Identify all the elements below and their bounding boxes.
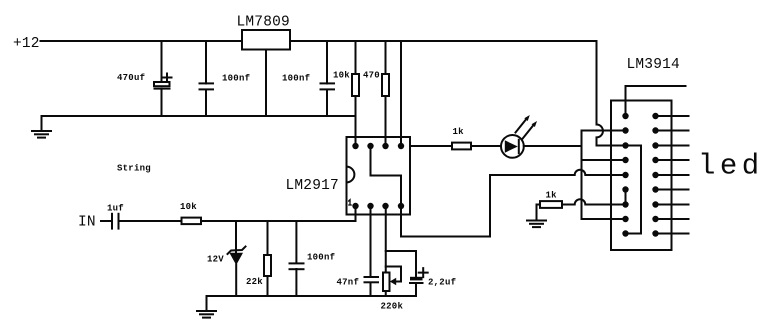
wire bus B (+9V to row3) (597, 41, 626, 146)
LM3914 left pin dots (622, 113, 628, 237)
wire +12 rail left segment (41, 40, 243, 42)
wire U1 pin 5 to pot and row5 (401, 170, 626, 237)
resistor R7 1k (537, 191, 626, 221)
svg-text:470uf: 470uf (117, 73, 145, 83)
svg-text:String: String (117, 164, 151, 174)
IC U2 LM3914 (611, 57, 680, 250)
capacitor C1 470uf (117, 41, 172, 116)
resistor R6 1k (410, 127, 501, 149)
potentiometer R5 220k (381, 206, 404, 312)
wire LM7809 ground lead (265, 50, 267, 117)
capacitor C4 1uf (101, 204, 182, 229)
ground (right, R7) (527, 221, 546, 228)
capacitor C2 100nf (200, 41, 251, 116)
resistor R1 10k (333, 41, 359, 146)
svg-text:LM2917: LM2917 (286, 178, 339, 194)
capacitor C5 100nf (290, 221, 336, 296)
ground (top left) (32, 116, 51, 138)
svg-text:IN: IN (78, 215, 96, 231)
capacitor C6 47nf (337, 206, 379, 296)
wire IN line to U1 pin 1 (203, 206, 356, 221)
wire LM3914 internal row3-row9 (626, 146, 642, 234)
regulator U3 LM7809 (237, 15, 291, 50)
svg-text:10k: 10k (333, 71, 350, 81)
wire LM3914 pin row1 to top (626, 86, 686, 116)
svg-text:220k: 220k (381, 302, 404, 312)
resistor R3 10k (180, 202, 201, 224)
wire bottom ground rail (207, 295, 417, 297)
svg-text:2,2uf: 2,2uf (428, 278, 456, 288)
resistor R4 22k (246, 221, 271, 296)
wire bus A (LED node) (582, 131, 626, 220)
svg-text:1k: 1k (453, 127, 465, 137)
resistor R2 470 (363, 41, 389, 146)
svg-text:LM7809: LM7809 (237, 15, 290, 31)
LM3914 right pin dots and leads (652, 113, 688, 237)
svg-text:470: 470 (363, 71, 380, 81)
svg-text:1k: 1k (546, 191, 558, 201)
svg-text:10k: 10k (180, 202, 197, 212)
wire top ground rail (42, 115, 356, 117)
svg-text:1uf: 1uf (107, 204, 124, 214)
IC U1 LM2917 (286, 137, 411, 215)
ground (bottom middle) (197, 296, 216, 318)
svg-text:12V: 12V (207, 255, 224, 265)
wire U1 internal pin3 to pin5 (371, 146, 402, 206)
svg-text:100nf: 100nf (222, 74, 250, 84)
wire LM3914 internal row6-row7 (625, 190, 627, 205)
svg-text:100nf: 100nf (307, 253, 335, 263)
svg-text:+12: +12 (13, 36, 40, 52)
svg-text:47nf: 47nf (337, 278, 360, 288)
svg-text:LM3914: LM3914 (627, 57, 680, 73)
capacitor C7 2,2uf (386, 251, 457, 296)
wire LED to bus A (524, 145, 582, 147)
svg-text:100nf: 100nf (282, 74, 310, 84)
LED D2 (501, 115, 537, 158)
svg-text:led: led (698, 150, 764, 183)
wire rail to U1 pin 8 (400, 41, 402, 146)
svg-text:22k: 22k (246, 277, 263, 287)
wire +12 rail right segment (290, 40, 597, 42)
zener D1 12V (207, 221, 246, 296)
capacitor C3 100nf (282, 41, 334, 116)
